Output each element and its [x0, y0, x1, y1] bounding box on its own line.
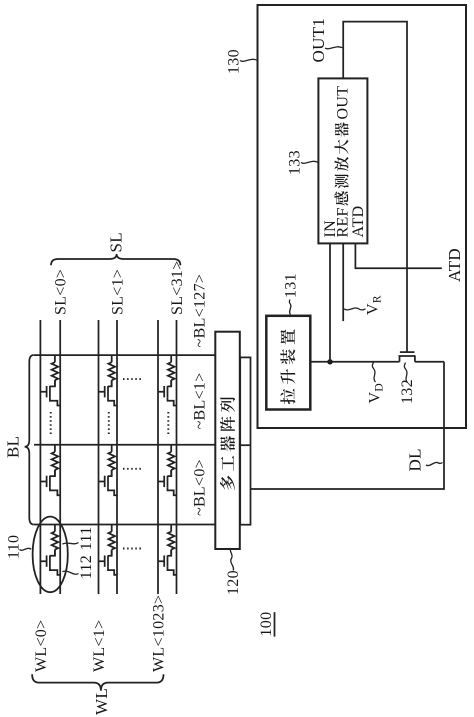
memory cell transistor Q(0,127)	[40, 380, 60, 405]
label 120	[225, 549, 242, 595]
memory cell resistor R(1,127)	[108, 355, 115, 386]
svg-text:111: 111	[78, 526, 95, 550]
svg-text:SL<0>: SL<0>	[53, 269, 70, 315]
svg-text:SL: SL	[106, 232, 125, 252]
memory cell resistor R(1023,1)	[168, 445, 175, 476]
svg-text:WL: WL	[92, 688, 111, 715]
memory cell transistor Q(1023,1)	[158, 470, 177, 495]
svg-text:133: 133	[287, 150, 304, 175]
source line SL&lt;1&gt;	[116, 320, 118, 594]
svg-text:DL: DL	[406, 448, 425, 471]
svg-text:WL<1023>: WL<1023>	[150, 595, 167, 672]
svg-text:~BL<127>: ~BL<127>	[192, 274, 209, 348]
memory cell transistor Q(1,1)	[99, 470, 118, 495]
memory cell resistor R(1023,127)	[168, 355, 175, 386]
memory cell resistor R(1,0)	[108, 525, 115, 556]
label 111 (resistor) leader	[62, 526, 95, 550]
junction dot V_D node	[327, 359, 332, 364]
svg-text:120: 120	[225, 570, 242, 595]
memory cell resistor R(0,0) 111	[52, 525, 59, 556]
label 133	[287, 150, 318, 175]
memory cell transistor Q(1,127)	[99, 380, 118, 405]
brace WL group	[32, 674, 163, 691]
word line WL&lt;0&gt;	[39, 320, 41, 594]
svg-text:WL<1>: WL<1>	[91, 620, 108, 672]
svg-text:ATD: ATD	[445, 248, 464, 282]
ellipsis dots (columns BL<1>..BL<127>, row 2)	[167, 411, 169, 434]
svg-text:112: 112	[78, 555, 95, 579]
svg-text:131: 131	[283, 273, 300, 298]
label 110	[6, 535, 32, 559]
svg-text:110: 110	[6, 535, 23, 559]
wire: V_R reference input	[342, 243, 344, 321]
brace SL group	[51, 254, 180, 265]
label DL	[406, 448, 443, 471]
svg-text:132: 132	[399, 379, 416, 404]
svg-text:WL<0>: WL<0>	[33, 620, 50, 672]
source line SL&lt;31&gt;	[176, 320, 178, 594]
label V_D	[367, 362, 386, 403]
ellipsis dots (columns BL<1>..BL<127>, row 1)	[108, 411, 110, 434]
wire: IN to sense amplifier	[329, 243, 331, 361]
word line WL&lt;1023&gt;	[157, 320, 159, 594]
memory cell resistor R(1,1)	[108, 445, 115, 476]
memory cell resistor R(0,1)	[52, 445, 59, 476]
text REF感测放大器OUT	[334, 86, 351, 238]
memory cell transistor Q(1023,127)	[158, 380, 177, 405]
svg-text:BL: BL	[3, 436, 22, 458]
wire: ATD input	[355, 243, 441, 268]
wire: 132 source to DL	[415, 361, 444, 363]
svg-text:REF: REF	[334, 207, 351, 237]
clamp transistor 132	[399, 352, 416, 362]
bit line BL&lt;0&gt;	[34, 524, 215, 526]
svg-text:~BL<1>: ~BL<1>	[192, 372, 209, 429]
wire: OUT to OUT1 / feedback to gate of 132	[343, 22, 407, 353]
mux-to-strip connector wire	[240, 444, 251, 446]
svg-text:100: 100	[258, 612, 275, 637]
ellipsis dots (rows WL<1>..WL<1023>, column 2)	[123, 378, 142, 380]
svg-text:130: 130	[226, 49, 243, 74]
svg-text:OUT1: OUT1	[309, 18, 328, 63]
label 100 (figure number, underlined)	[258, 612, 275, 637]
svg-text:OUT: OUT	[334, 86, 351, 120]
memory cell resistor R(1023,0)	[168, 525, 175, 556]
label V_R	[344, 295, 384, 315]
multiplexer array box 120	[215, 332, 240, 549]
svg-text:SL<31>: SL<31>	[169, 260, 186, 315]
text 拉升装置	[280, 329, 295, 404]
pull-up device box 131 (拉升装置)	[266, 316, 310, 410]
memory cell resistor R(0,127)	[52, 355, 59, 386]
sensing device box 130	[258, 5, 467, 428]
text 多工器阵列	[220, 397, 235, 490]
bit line BL&lt;1&gt;	[34, 444, 215, 446]
label OUT1	[309, 18, 342, 63]
wire: pull-up output / V_D node	[310, 361, 399, 363]
ellipse highlighting cell 110	[33, 517, 68, 593]
memory cell transistor Q(1023,0)	[158, 550, 177, 575]
ellipsis dots (columns BL<1>..BL<127>, row 0)	[50, 411, 52, 434]
wire: data line DL	[251, 362, 445, 489]
ellipsis dots (rows WL<1>..WL<1023>, column 1)	[123, 468, 142, 470]
ellipsis dots (rows WL<1>..WL<1023>, column 0)	[123, 548, 142, 550]
sense amplifier box 133	[318, 78, 367, 243]
svg-text:~BL<0>: ~BL<0>	[192, 459, 209, 516]
label 132	[399, 363, 416, 404]
svg-text:VR: VR	[365, 295, 384, 315]
multiplexer output strip	[240, 357, 250, 524]
memory cell transistor Q(0,0) 112	[40, 550, 60, 575]
svg-text:ATD: ATD	[350, 205, 367, 237]
bit line BL&lt;127&gt;	[34, 354, 215, 356]
label 112 (transistor) leader	[62, 555, 95, 579]
label 131	[283, 273, 300, 314]
source line SL&lt;0&gt;	[59, 320, 61, 594]
svg-text:VD: VD	[367, 383, 386, 403]
memory cell transistor Q(1,0)	[99, 550, 118, 575]
svg-text:SL<1>: SL<1>	[109, 269, 126, 315]
memory cell transistor Q(0,1)	[40, 470, 60, 495]
word line WL&lt;1&gt;	[98, 320, 100, 594]
label 130	[226, 49, 258, 74]
brace BL group	[25, 355, 34, 525]
